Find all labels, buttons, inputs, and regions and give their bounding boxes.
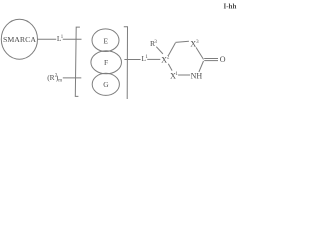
- wire: bond bracket to L1: [124, 59, 140, 61]
- svg-text:(R: (R: [47, 73, 54, 82]
- svg-text:NH: NH: [191, 71, 203, 80]
- SMARCA binder circle: [1, 19, 37, 59]
- ring G circle: [92, 73, 119, 95]
- svg-text:I-hh: I-hh: [224, 2, 237, 10]
- ring E circle: [92, 29, 119, 52]
- wire: bond (R2)m to bracket: [63, 77, 82, 79]
- ring F circle: [91, 51, 122, 74]
- bond X1 to X2: [168, 64, 172, 71]
- bond X2 to ring top-left vertex: [168, 43, 175, 56]
- bond NH to X1: [178, 74, 190, 76]
- left bracket: [75, 27, 80, 96]
- carbonyl double bond C=O: [204, 58, 218, 60]
- svg-text:1: 1: [175, 72, 178, 77]
- wire: bond L1 to X2: [147, 58, 160, 60]
- bond top edge to X3: [175, 41, 189, 42]
- bond C to NH: [199, 61, 204, 72]
- right bracket: [124, 27, 128, 99]
- svg-text:G: G: [103, 80, 109, 89]
- svg-text:E: E: [103, 36, 108, 45]
- svg-text:m: m: [58, 78, 62, 83]
- svg-text:SMARCA: SMARCA: [3, 35, 36, 44]
- bond X3 to carbonyl C: [196, 47, 204, 59]
- svg-text:F: F: [104, 58, 108, 67]
- svg-text:O: O: [220, 55, 226, 64]
- svg-text:3: 3: [196, 40, 199, 45]
- wire: bond circle to L: [38, 38, 57, 40]
- svg-text:2: 2: [167, 56, 170, 61]
- bond R3 to X2: [156, 47, 163, 54]
- wire: bond L to left bracket: [63, 38, 82, 40]
- svg-text:3: 3: [154, 40, 157, 45]
